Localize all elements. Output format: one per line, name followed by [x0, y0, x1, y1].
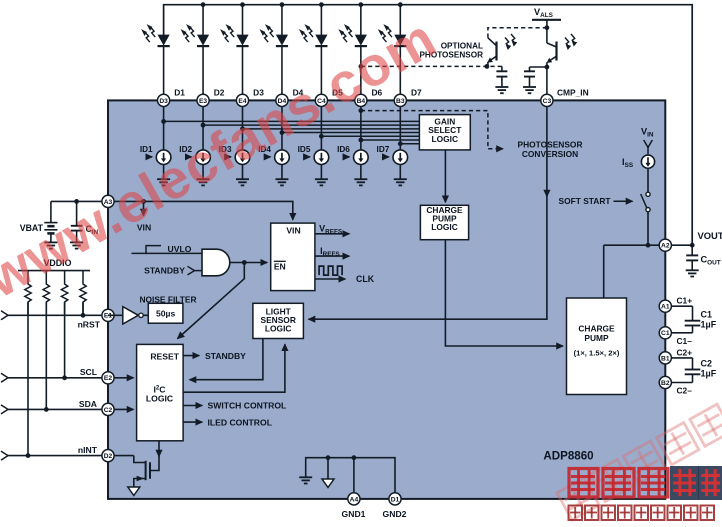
svg-text:RESET: RESET	[150, 352, 179, 362]
pin E1	[102, 309, 114, 321]
svg-text:ILED CONTROL: ILED CONTROL	[208, 417, 272, 427]
node optional emitter	[485, 64, 490, 69]
wire Q2 emitter to cap	[530, 66, 547, 68]
capacitor C1	[692, 306, 694, 320]
svg-text:VIN: VIN	[286, 225, 300, 235]
svg-text:ID5: ID5	[298, 145, 311, 154]
svg-text:E3: E3	[199, 98, 207, 105]
wire ID4 to ground	[281, 165, 283, 180]
pin C1	[665, 332, 692, 334]
svg-text:B2: B2	[661, 380, 670, 387]
pin C4	[315, 94, 327, 106]
svg-text:50µs: 50µs	[156, 309, 176, 319]
svg-text:SCL: SCL	[80, 367, 97, 377]
ground C_OUT	[686, 269, 699, 271]
node switch/VOUT	[646, 243, 651, 248]
svg-text:LOGIC: LOGIC	[432, 134, 459, 144]
node Q2 emitter	[545, 65, 550, 70]
wire bus line col4 to gain select	[282, 132, 419, 134]
svg-text:ID7: ID7	[377, 145, 390, 154]
pin A1	[665, 305, 692, 307]
svg-text:C1+: C1+	[677, 296, 693, 306]
svg-text:E2: E2	[104, 375, 112, 382]
node bus junction col7	[398, 141, 403, 146]
phototransistor Q1 (optional)	[495, 42, 497, 61]
svg-text:LOGIC: LOGIC	[431, 222, 458, 232]
pin A4	[348, 493, 360, 505]
LED D3	[242, 5, 244, 35]
wire ID3 to ground	[242, 165, 244, 180]
svg-text:C2: C2	[701, 359, 713, 369]
ground ID4	[275, 178, 288, 180]
pin E4	[236, 94, 248, 106]
svg-text:B1: B1	[661, 355, 670, 362]
capacitor C_IN	[76, 201, 78, 225]
node D6 internal tap	[358, 108, 363, 113]
current source ID7	[393, 150, 408, 165]
svg-text:CHARGE: CHARGE	[578, 324, 615, 334]
current source I_SS	[641, 155, 654, 168]
svg-text:ID1: ID1	[140, 145, 153, 154]
ground rail left	[299, 476, 312, 478]
svg-text:nINT: nINT	[78, 445, 98, 455]
current source ID1	[156, 150, 171, 165]
capacitor photosensor C_B	[529, 67, 531, 71]
wire pin to current bus col3	[242, 107, 244, 151]
node bus junction col1	[161, 119, 166, 124]
LED D7	[399, 5, 401, 35]
node R2 junction	[44, 407, 49, 412]
current source ID5	[314, 150, 329, 165]
wire bus line col3 to gain select	[243, 128, 420, 130]
ground rail triangle	[327, 458, 329, 479]
ground cap C_A	[495, 86, 508, 88]
svg-text:D3: D3	[159, 98, 168, 105]
node V_ALS junction	[545, 25, 550, 30]
output ILED CONTROL	[183, 421, 202, 423]
node rail junction col5	[319, 2, 324, 7]
current source ID3	[235, 150, 250, 165]
LED D2	[202, 5, 204, 35]
current source ID2	[196, 150, 211, 165]
ground ID5	[315, 178, 328, 180]
wire D2 to drain	[114, 455, 134, 457]
pin B2	[665, 382, 692, 384]
node rail junction col7	[398, 2, 403, 7]
UVLO step symbol	[132, 246, 162, 254]
wire LSL to I2C	[190, 339, 263, 380]
pin D2	[102, 450, 114, 462]
svg-text:B3: B3	[396, 98, 405, 105]
wire I2C to LSL	[183, 344, 285, 392]
wire C2 to I2C	[114, 408, 133, 410]
pin E3	[197, 94, 209, 106]
current source ID6	[354, 150, 369, 165]
battery VBAT	[50, 201, 52, 222]
pin D1	[389, 493, 401, 505]
svg-text:D7: D7	[411, 88, 422, 98]
block GAIN SELECT LOGIC	[419, 115, 470, 150]
watermark red slogan	[569, 506, 583, 521]
wire pin to current bus col4	[281, 107, 283, 151]
node bus junction col2	[201, 123, 206, 128]
svg-text:C2–: C2–	[677, 386, 693, 396]
ground cap C_B	[523, 86, 536, 88]
wire A3/VBAT net	[51, 200, 108, 202]
pin C3	[541, 94, 553, 106]
ground mosfet (triangle)	[128, 487, 140, 496]
transistor M1 (nINT open drain)	[149, 462, 151, 478]
pin B4	[355, 94, 367, 106]
svg-text:GND1: GND1	[342, 509, 366, 519]
output STANDBY	[183, 355, 199, 357]
node VIN stub	[141, 199, 146, 204]
node rail junction col6	[358, 2, 363, 7]
input SCL	[1, 373, 8, 378]
input nRST	[1, 311, 8, 316]
svg-text:ID6: ID6	[337, 145, 350, 154]
node C_IN tap	[74, 199, 79, 204]
wire Q2 emitter to CMP_IN	[546, 67, 548, 94]
wire ID6 to ground	[360, 165, 362, 180]
input nINT	[1, 451, 8, 456]
svg-text:CMP_IN: CMP_IN	[557, 88, 589, 98]
node A4 tap	[352, 455, 357, 460]
resistor pullup R2	[43, 271, 49, 314]
svg-text:1µF: 1µF	[701, 320, 717, 330]
svg-text:nRST: nRST	[78, 320, 101, 330]
wire bus line col5 to gain select	[321, 135, 419, 137]
svg-text:SDA: SDA	[79, 399, 97, 409]
wire charge pump to VOUT rail	[603, 245, 605, 298]
wire charge pump logic to charge pump	[445, 240, 563, 346]
svg-text:1µF: 1µF	[701, 369, 717, 379]
svg-text:C1: C1	[661, 330, 670, 337]
resistor pullup R1	[25, 271, 31, 314]
wire gain select to charge pump logic	[444, 150, 446, 202]
svg-text:A1: A1	[661, 304, 670, 311]
pin D3	[158, 94, 170, 106]
LED D1	[158, 35, 170, 46]
svg-text:(1×, 1.5×, 2×): (1×, 1.5×, 2×)	[574, 349, 620, 358]
current source ID4	[275, 150, 290, 165]
wire pin to current bus col1	[163, 107, 165, 151]
wire STANDBY chevron to gate	[188, 266, 195, 270]
svg-text:D2: D2	[214, 88, 225, 98]
svg-text:LOGIC: LOGIC	[265, 324, 292, 334]
wire ground rail	[306, 458, 395, 493]
wire ID2 to ground	[202, 165, 204, 180]
node bus junction col6	[358, 138, 363, 143]
svg-text:D1: D1	[174, 88, 185, 98]
svg-text:C1: C1	[701, 310, 713, 320]
ground ID7	[394, 178, 407, 180]
input SDA	[1, 405, 8, 410]
svg-text:UVLO: UVLO	[168, 244, 192, 254]
block CHARGE PUMP	[567, 298, 627, 395]
wire pin to current bus col7	[399, 107, 401, 151]
svg-text:OPTIONAL: OPTIONAL	[441, 42, 483, 51]
wire A4	[353, 458, 355, 493]
wire gate output to EN	[230, 262, 267, 264]
node bus junction col3	[240, 126, 245, 131]
LED D6	[360, 5, 362, 35]
svg-text:CONVERSION: CONVERSION	[522, 149, 578, 159]
wire dashed to photosensor conversion	[361, 111, 503, 149]
ground C_IN	[70, 241, 83, 243]
block VIN/EN	[271, 223, 315, 291]
svg-text:E1: E1	[104, 313, 112, 320]
wire ISS to switch	[647, 168, 649, 192]
wire charge pump to A2/VOUT	[604, 244, 660, 246]
wire I2C to mosfet gate	[158, 441, 160, 457]
svg-text:SOFT START: SOFT START	[559, 196, 612, 206]
node VOUT	[690, 243, 695, 248]
block LIGHT SENSOR LOGIC	[253, 303, 304, 338]
node rail junction col3	[240, 2, 245, 7]
svg-text:D1: D1	[391, 496, 400, 503]
svg-text:PUMP: PUMP	[584, 333, 609, 343]
ADP8860 chip body	[108, 100, 665, 499]
watermark red logo	[569, 469, 598, 498]
node rail junction col2	[201, 2, 206, 7]
wire ID5 to ground	[320, 165, 322, 180]
svg-text:STANDBY: STANDBY	[144, 266, 185, 276]
svg-text:A2: A2	[661, 243, 670, 250]
wire junction to RESET (diagonal)	[178, 263, 245, 339]
wire pin to current bus col2	[202, 107, 204, 151]
node D6 photosensor tap	[358, 64, 363, 69]
svg-text:LOGIC: LOGIC	[146, 393, 173, 403]
wire bus line col6 to gain select	[361, 139, 420, 141]
svg-text:SWITCH CONTROL: SWITCH CONTROL	[208, 401, 287, 411]
pin B1	[665, 357, 692, 359]
ground ID3	[236, 178, 249, 180]
wire A3 to VIN block	[114, 201, 293, 219]
svg-text:D2: D2	[104, 453, 113, 460]
svg-text:A4: A4	[350, 496, 359, 503]
output V_REFS	[315, 233, 349, 235]
resistor pullup R3	[61, 271, 67, 314]
wire pin to current bus col6	[360, 107, 362, 151]
svg-text:C2+: C2+	[677, 347, 693, 357]
wire ID1 to ground	[163, 165, 165, 180]
pin A3	[102, 195, 114, 207]
wire dashed V_ALS to optional phototransistor	[488, 28, 547, 38]
node R1 junction	[26, 453, 31, 458]
node gnd triangle tap	[326, 455, 331, 460]
capacitor C_OUT	[691, 245, 693, 255]
pin A2	[659, 239, 671, 251]
wire ID7 to ground	[399, 165, 401, 180]
wire VDDIO rail	[18, 270, 90, 272]
block I2C LOGIC	[137, 344, 184, 440]
svg-text:EN: EN	[274, 262, 286, 272]
svg-text:CLK: CLK	[356, 274, 375, 284]
wire bus line col7 to gain select	[400, 143, 419, 145]
node bus junction col4	[280, 130, 285, 135]
wire bus line col1 to gain select	[164, 120, 420, 122]
svg-text:C2: C2	[104, 407, 113, 414]
LED D4	[281, 5, 283, 35]
node bus junction col5	[319, 134, 324, 139]
capacitor photosensor C_A	[501, 66, 503, 71]
wire: LED anode rail to VOUT	[164, 5, 693, 246]
wire VIN stub arrow	[143, 201, 145, 215]
wire dashed D6 to optional photosensor emitter	[361, 65, 502, 67]
svg-text:C3: C3	[543, 98, 552, 105]
wire bus line col2 to gain select	[203, 124, 419, 126]
svg-text:STANDBY: STANDBY	[205, 351, 246, 361]
ground ID6	[354, 178, 367, 180]
node R4 junction	[81, 313, 86, 318]
pin C2	[102, 403, 114, 415]
node R3 junction	[62, 375, 67, 380]
wire E2 to I2C	[114, 377, 133, 379]
resistor pullup R4	[80, 271, 86, 314]
output I_REFS	[315, 255, 349, 257]
capacitor C2	[692, 358, 694, 369]
wire UVLO to gate	[146, 252, 202, 254]
LED D5	[320, 5, 322, 35]
AND gate U1	[202, 249, 230, 276]
phototransistor Q2	[546, 28, 548, 43]
node rail junction col4	[280, 2, 285, 7]
wire CMP_IN to light sensor logic	[546, 107, 548, 197]
block CHARGE PUMP LOGIC	[420, 205, 468, 239]
ground ID2	[197, 178, 210, 180]
switch soft start	[646, 192, 650, 196]
watermark CJK pink diagonal	[557, 404, 722, 520]
pin E2	[102, 372, 114, 384]
ground ID1	[157, 178, 170, 180]
wire switch to VOUT line	[647, 212, 649, 246]
output SWITCH CONTROL	[183, 405, 202, 407]
output CLK	[319, 266, 342, 275]
ground VBAT	[44, 241, 57, 243]
pin B3	[394, 94, 406, 106]
block 50us filter	[148, 303, 183, 323]
wire pin to current bus col5	[320, 107, 322, 151]
node gate output junction	[242, 260, 247, 265]
pin D4	[276, 94, 288, 106]
buffer noise filter	[108, 314, 123, 316]
svg-text:GND2: GND2	[383, 509, 407, 519]
svg-text:VOUT: VOUT	[698, 230, 722, 241]
svg-text:ADP8860: ADP8860	[543, 450, 593, 463]
svg-text:C1–: C1–	[677, 336, 693, 346]
